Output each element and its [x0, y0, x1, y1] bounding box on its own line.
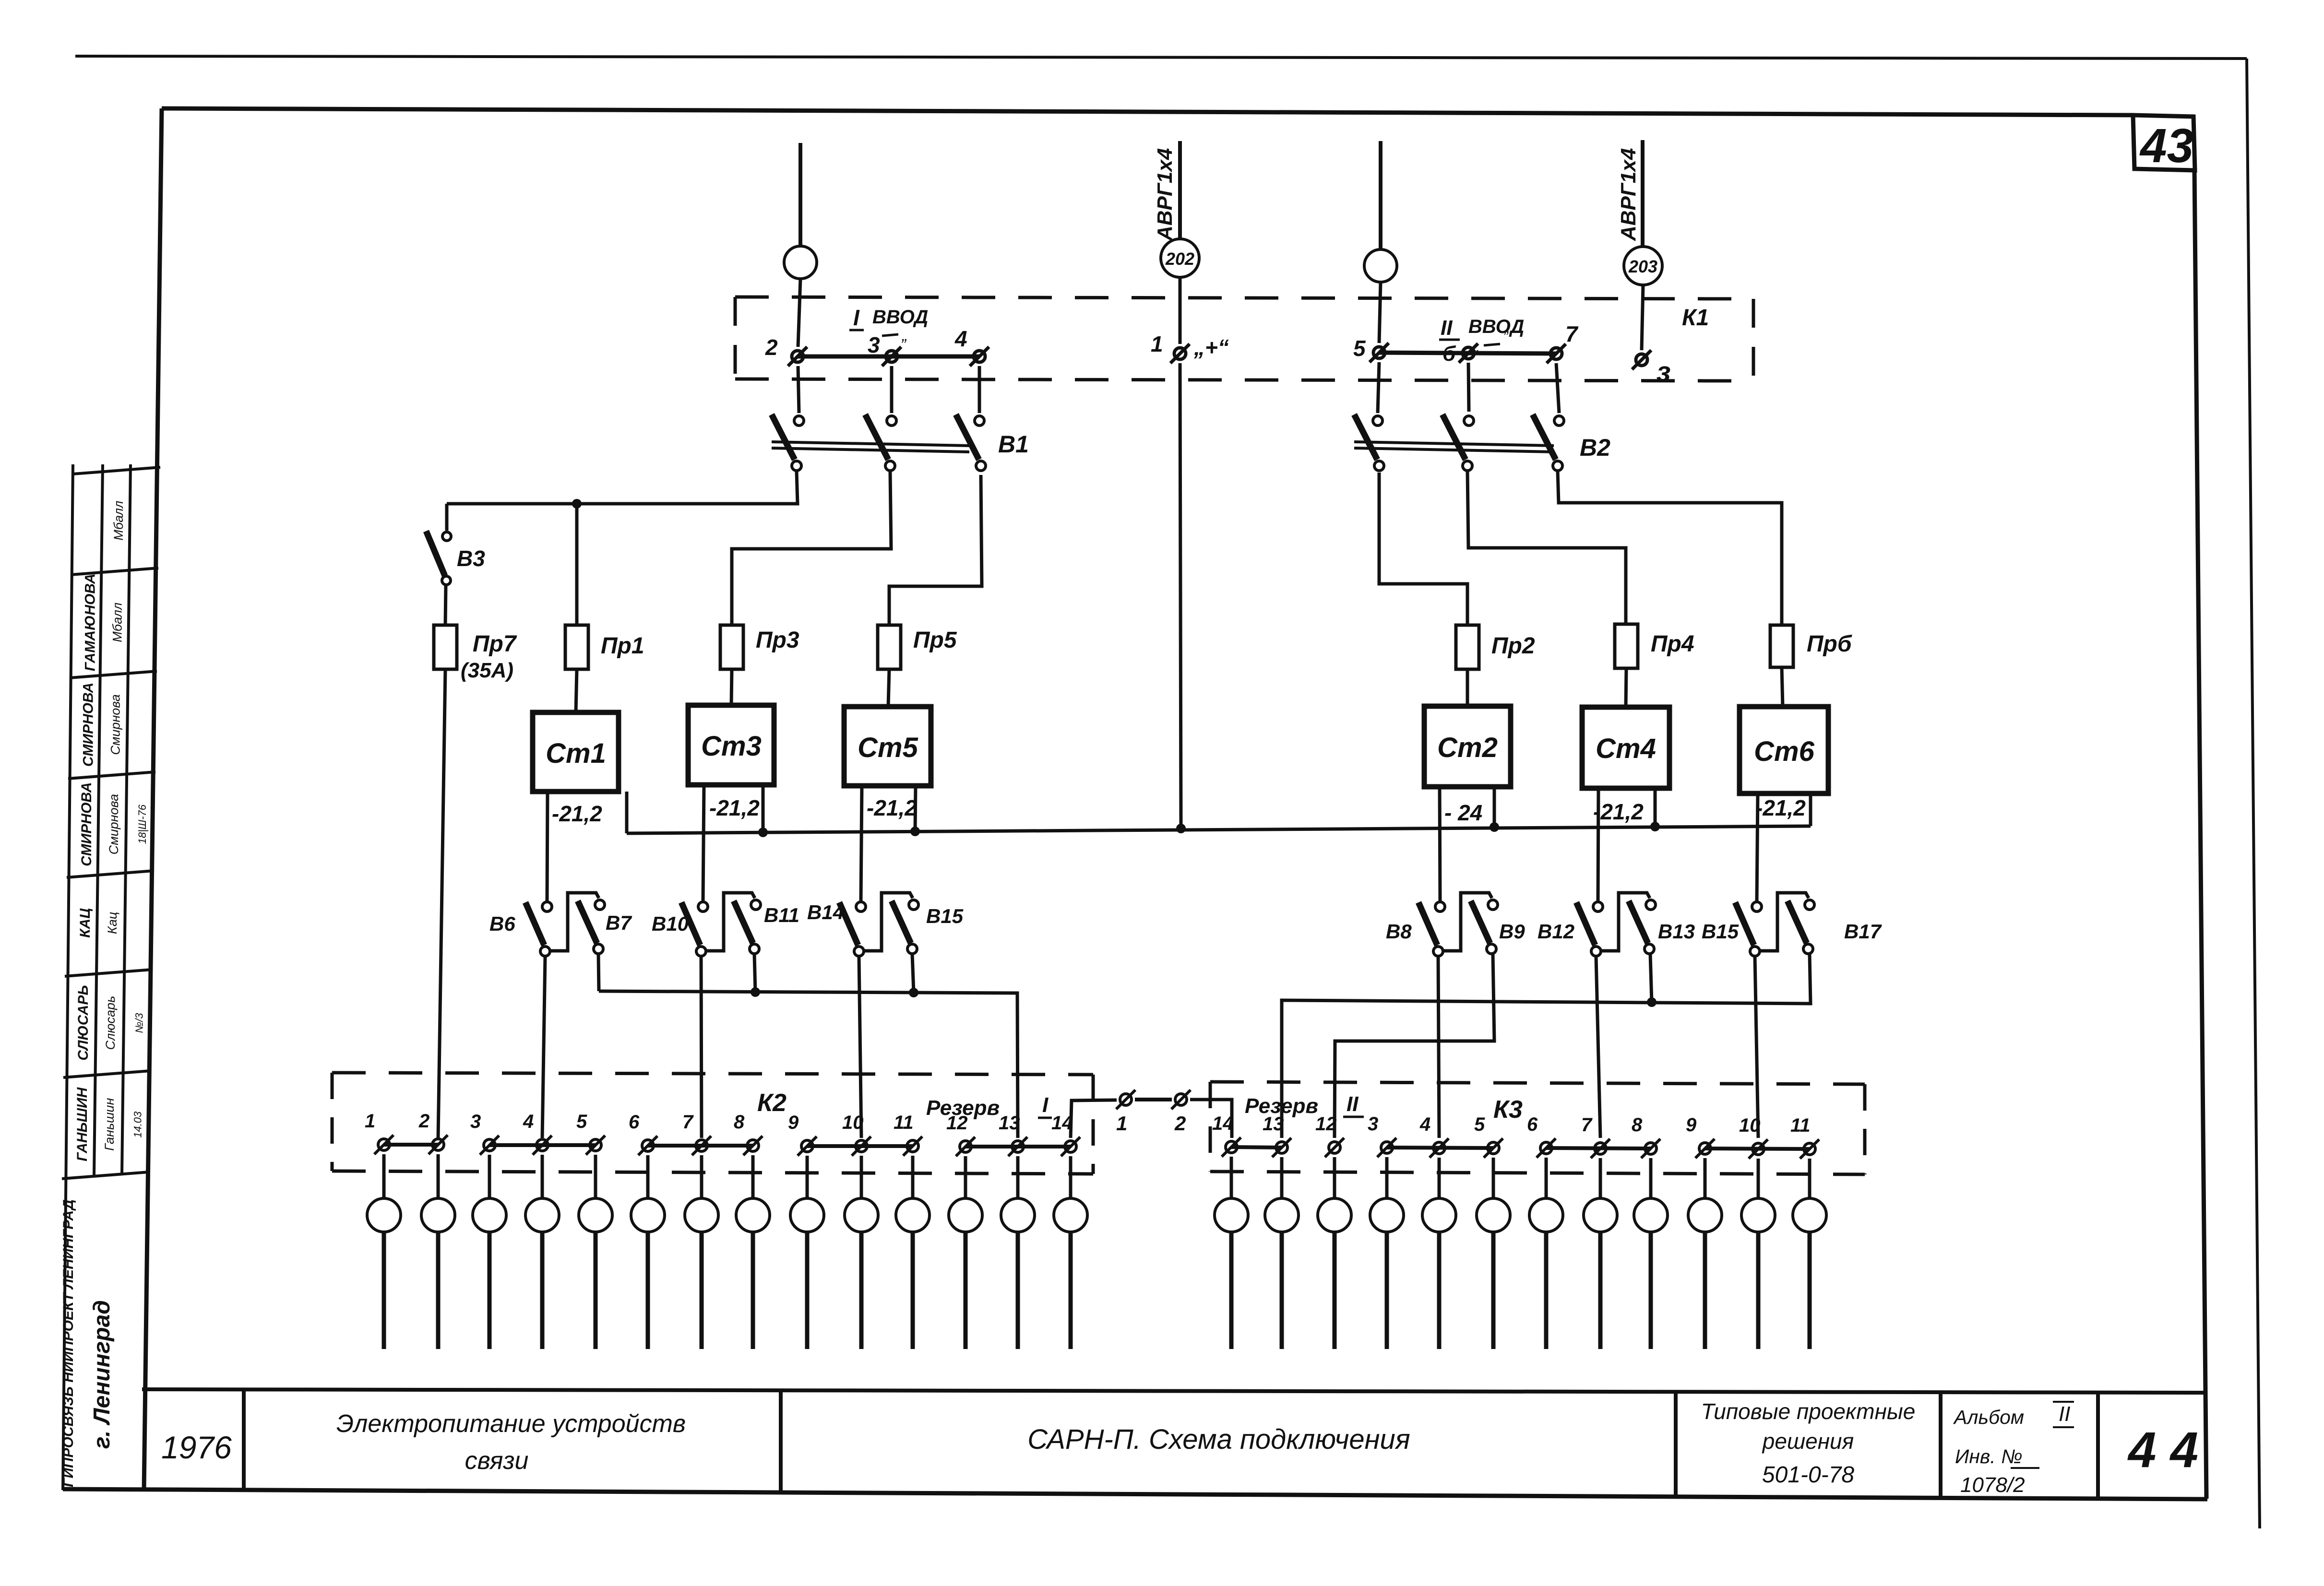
label -24 St2 [1444, 800, 1482, 825]
title block divider 44 [2096, 1393, 2100, 1498]
reserve bus I [599, 991, 1018, 1138]
label K3 [1493, 1096, 1523, 1124]
fuse Pr7 [434, 625, 457, 669]
fuse Pr1 [565, 625, 588, 669]
svg-text:2: 2 [1174, 1112, 1186, 1135]
label B15(16) [1702, 920, 1739, 943]
svg-text:4 4: 4 4 [2127, 1422, 2198, 1478]
svg-text:10: 10 [1739, 1115, 1761, 1136]
wire terminal K2:7 to load [700, 1155, 703, 1198]
wire feeder-2 to K1 terminal 5 [1379, 282, 1381, 343]
svg-text:-21,2: -21,2 [709, 795, 760, 820]
wire St6 left output to B16 [1757, 793, 1758, 901]
K1 dashed box top [735, 297, 1753, 299]
junction dot bus St5 [910, 827, 920, 836]
label K3 terminal 6 [1527, 1114, 1538, 1135]
wire tap down to Pr1 [575, 504, 579, 625]
label Pr5 [913, 627, 957, 653]
rectifier St6 [1740, 707, 1828, 793]
svg-text:5: 5 [1353, 336, 1366, 361]
wire terminal K3:14 to load [1230, 1157, 1233, 1198]
svg-text:ВВОД: ВВОД [1468, 316, 1524, 337]
label K3 terminal 14 [1212, 1113, 1234, 1134]
load cable K3:8 [1649, 1232, 1653, 1349]
wire terminal K3:9 to load [1704, 1158, 1707, 1198]
svg-text:8: 8 [1632, 1114, 1643, 1136]
rectifier St1 [533, 712, 619, 792]
label з [1657, 356, 1671, 388]
terminal K2:1 [374, 1135, 393, 1154]
K2 terminal links [384, 1145, 1071, 1147]
svg-text:3: 3 [1368, 1113, 1378, 1135]
bridge link 1-2 [1135, 1098, 1172, 1101]
label Pr2 [1491, 633, 1535, 659]
terminal K2:3 [480, 1136, 499, 1155]
K3 terminal links [1231, 1147, 1810, 1149]
svg-text:Ст4: Ст4 [1596, 733, 1656, 764]
load circle K3:11 [1793, 1198, 1826, 1232]
load circle K3:14 [1215, 1198, 1248, 1232]
wire St3 left output to B10 [703, 785, 704, 901]
wire Pr7 to K2:2 [438, 669, 445, 1138]
label Pr1 [601, 633, 644, 659]
label -21,2 St5 [867, 795, 917, 820]
title typical line1 [1701, 1399, 1916, 1424]
svg-text:В7: В7 [606, 911, 632, 934]
terminal K3:3 [1377, 1138, 1396, 1157]
load circle K2:4 [525, 1198, 559, 1232]
svg-text:К2: К2 [757, 1089, 787, 1117]
svg-text:Пр4: Пр4 [1651, 631, 1694, 657]
wire terminal K2:8 to load [751, 1155, 755, 1198]
terminal K3:5 [1484, 1138, 1503, 1158]
label K3 terminal 5 [1474, 1114, 1485, 1135]
load cable K2:2 [436, 1232, 441, 1349]
bridge terminal 1 [1116, 1090, 1135, 1109]
wire terminal K3:13 to load [1280, 1157, 1284, 1198]
svg-text:1: 1 [1116, 1112, 1127, 1135]
title page number 44 [2127, 1422, 2198, 1478]
terminal K2:10 [852, 1136, 871, 1156]
K1 bus terminals 2-3-4 [798, 355, 979, 359]
svg-text:7: 7 [682, 1112, 694, 1133]
load cable K3:5 [1491, 1232, 1496, 1349]
wire K1:4 down [978, 366, 981, 413]
wire terminal K2:3 to load [488, 1155, 491, 1198]
title block divider typical [1674, 1392, 1678, 1496]
load circle K3:10 [1741, 1198, 1775, 1232]
wire terminal K2:11 to load [911, 1156, 915, 1198]
svg-text:Ст1: Ст1 [546, 738, 606, 769]
terminal K2:4 [533, 1136, 552, 1155]
load circle K2:13 [1001, 1198, 1035, 1232]
svg-text:14: 14 [1051, 1113, 1073, 1134]
terminal K2:14 [1061, 1137, 1080, 1156]
svg-text:Смирнова: Смирнова [108, 694, 122, 755]
svg-text:з: з [1657, 356, 1671, 388]
wire B2 pole3 to Pr6 [1558, 471, 1782, 625]
svg-text:3: 3 [470, 1111, 481, 1132]
K1 dashed box bottom [735, 379, 1753, 381]
svg-text:В15: В15 [1702, 920, 1739, 943]
switch pair B16/B17 [1735, 893, 1814, 956]
svg-text:1078/2: 1078/2 [1960, 1473, 2025, 1497]
load circle K2:10 [845, 1198, 878, 1232]
cable 202 line [1178, 141, 1182, 239]
wire B15 to reserve bus [912, 954, 914, 993]
svg-text:ГАМАЮНОВА: ГАМАЮНОВА [82, 573, 98, 671]
bridge K2:14 up [1071, 1100, 1117, 1138]
terminal K1:1 [1170, 344, 1190, 363]
terminal K3:11 [1800, 1139, 1819, 1159]
label K2 terminal 2 [418, 1111, 429, 1132]
svg-text:2: 2 [418, 1111, 429, 1132]
bridge to K3:14 [1190, 1100, 1232, 1138]
label K2 terminal 9 [788, 1112, 799, 1133]
wire terminal K2:5 to load [594, 1155, 597, 1198]
wire B10 to K2:7 [701, 957, 702, 1138]
label K3 terminal 7 [1581, 1114, 1593, 1136]
svg-text:К3: К3 [1493, 1096, 1523, 1124]
K1 bus terminals 5-6-7 [1379, 353, 1556, 354]
label K3 terminal 12 [1315, 1113, 1337, 1135]
load cable K3:3 [1385, 1232, 1389, 1349]
switch B1 (3-pole) [772, 414, 1029, 471]
load circle K2:12 [949, 1198, 982, 1232]
load circle K2:2 [421, 1198, 455, 1232]
terminal K3:8 [1641, 1139, 1660, 1158]
svg-text:6: 6 [1527, 1114, 1538, 1135]
wire terminal K3:5 to load [1492, 1158, 1495, 1198]
svg-text:4: 4 [1419, 1114, 1430, 1135]
wire St5 left output to B14 [861, 786, 862, 901]
label B8 [1386, 920, 1412, 943]
label B6 [489, 912, 515, 935]
wire Pr5 to St5 [888, 669, 889, 707]
wire St4 right output to bus [1654, 788, 1657, 827]
svg-text:В12: В12 [1537, 920, 1574, 943]
drawing frame top edge [162, 108, 2134, 115]
wire terminal K3:12 to load [1333, 1157, 1336, 1198]
svg-text:В8: В8 [1386, 920, 1412, 943]
svg-text:-21,2: -21,2 [1593, 799, 1644, 824]
K2 dashed box top [332, 1073, 1093, 1075]
svg-text:9: 9 [788, 1112, 799, 1133]
bridge terminal 2 [1171, 1090, 1191, 1109]
fuse Pr4 [1615, 624, 1638, 668]
load cable K3:14 [1229, 1232, 1234, 1349]
K1 dashed box right [1752, 299, 1755, 381]
label АВРГ1х4 right [1617, 148, 1640, 241]
wire St3 right output to bus [762, 785, 765, 832]
drawing frame right edge [2194, 169, 2206, 1499]
svg-text:Типовые проектные: Типовые проектные [1701, 1399, 1916, 1424]
junction dot bus St3 [758, 828, 768, 837]
load cable K3:9 [1703, 1232, 1707, 1349]
svg-text:„: „ [901, 326, 907, 344]
load circle K3:12 [1318, 1198, 1351, 1232]
svg-text:В13: В13 [1658, 920, 1695, 943]
svg-text:В10: В10 [652, 912, 689, 935]
svg-text:-21,2: -21,2 [867, 795, 917, 820]
svg-text:б: б [1442, 342, 1456, 366]
wire terminal K3:7 to load [1599, 1158, 1602, 1198]
label bridge 2 [1174, 1112, 1186, 1135]
svg-text:В6: В6 [489, 912, 515, 935]
svg-text:Ганьшин: Ганьшин [102, 1098, 117, 1151]
K3 dashed box left [1209, 1082, 1212, 1172]
label II ВВОД [1439, 316, 1524, 366]
K2 dashed box left [331, 1073, 334, 1171]
label K2 terminal 10 [842, 1112, 864, 1133]
svg-text:СЛЮСАРЬ: СЛЮСАРЬ [75, 985, 91, 1060]
load circle K2:6 [631, 1198, 665, 1232]
load circle K2:11 [896, 1198, 930, 1232]
wire terminal K2:9 to load [806, 1156, 809, 1198]
svg-text:(35А): (35А) [461, 659, 513, 682]
junction dot reserve B11 [751, 987, 760, 997]
label B7 [606, 911, 632, 934]
terminal K2:12 [956, 1137, 975, 1156]
rectifier St5 [844, 707, 931, 786]
cable 202 circle [1161, 239, 1199, 277]
junction dot bus St4 [1650, 822, 1660, 831]
terminal K2:11 [903, 1136, 922, 1156]
wire B14 to K2:10 [859, 957, 861, 1138]
load circle K3:7 [1584, 1198, 1617, 1232]
load circle K3:4 [1422, 1198, 1456, 1232]
label K3 terminal 4 [1419, 1114, 1430, 1135]
svg-text:Ст2: Ст2 [1437, 732, 1498, 763]
wire B7 down to reserve bus [598, 954, 599, 991]
label K3 terminal 13 [1263, 1113, 1284, 1135]
label -21,2 St4 [1593, 799, 1644, 824]
svg-text:202: 202 [1165, 249, 1194, 269]
svg-text:Кац: Кац [105, 912, 119, 934]
svg-text:1: 1 [365, 1111, 375, 1132]
label Reserve II [1245, 1092, 1364, 1118]
cable 203 line [1641, 140, 1645, 247]
label K2 terminal 3 [470, 1111, 481, 1132]
junction dot bus 202 [1176, 824, 1186, 833]
load cable K2:13 [1016, 1232, 1020, 1349]
svg-text:К1: К1 [1682, 305, 1709, 331]
load circle K2:1 [367, 1198, 401, 1232]
label K2 terminal 5 [576, 1111, 587, 1132]
signature table grid [62, 464, 160, 1490]
svg-text:ВВОД: ВВОД [872, 307, 928, 328]
title project name line1 [336, 1410, 686, 1438]
svg-text:„: „ [1473, 338, 1479, 355]
load cable K2:1 [382, 1232, 386, 1349]
svg-text:11: 11 [1790, 1115, 1811, 1136]
svg-text:Мбалл: Мбалл [111, 501, 126, 541]
title block top line [142, 1389, 2205, 1393]
K3 dashed box bottom [1210, 1172, 1865, 1174]
label K3 terminal 3 [1368, 1113, 1378, 1135]
terminal K3:14 [1222, 1137, 1241, 1157]
svg-text:В2: В2 [1580, 434, 1610, 461]
junction dot reserve B15 [909, 988, 918, 997]
svg-text:6: 6 [629, 1112, 640, 1133]
label -21,2 St6 [1755, 795, 1806, 820]
load circle K2:3 [473, 1198, 506, 1232]
switch pair B6/B7 [525, 893, 605, 956]
wire terminal K2:4 to load [541, 1155, 544, 1198]
svg-text:-21,2: -21,2 [552, 801, 602, 826]
svg-text:АВРГ1х4: АВРГ1х4 [1153, 148, 1177, 241]
label K3 terminal 8 [1632, 1114, 1643, 1136]
fuse Pr6 [1770, 625, 1793, 667]
label K3 terminal 11 [1790, 1115, 1811, 1136]
wire B1 pole1 to B3 bus [447, 472, 798, 504]
switch pair B8/B9 [1418, 893, 1498, 956]
terminal K2:13 [1008, 1137, 1027, 1156]
wire Pr4 to St4 [1626, 668, 1626, 707]
load cable K3:10 [1756, 1232, 1761, 1349]
label B10 [652, 912, 689, 935]
svg-text:2: 2 [765, 335, 778, 360]
svg-text:14: 14 [1212, 1113, 1234, 1134]
rectifier St3 [688, 705, 774, 785]
title album line3 [1960, 1473, 2025, 1497]
terminal K1:2 [788, 347, 807, 366]
load cable K3:12 [1333, 1232, 1337, 1349]
wire B1 pole2 to Pr3 [732, 472, 891, 625]
fuse Pr5 [878, 625, 901, 669]
terminal K1:5 [1370, 343, 1389, 362]
label АВРГ1х4 left [1153, 148, 1177, 241]
label K2 terminal 1 [365, 1111, 375, 1132]
signature table names [74, 501, 148, 1161]
terminal K1:4 [970, 347, 989, 366]
wire terminal K3:6 to load [1545, 1158, 1548, 1198]
svg-text:связи: связи [465, 1447, 529, 1475]
label 2 [765, 335, 778, 360]
label B12 [1537, 920, 1574, 943]
svg-text:4: 4 [954, 326, 967, 351]
svg-text:решения: решения [1762, 1429, 1854, 1454]
common bus -21,2 [627, 826, 1811, 833]
terminal K1:6 [1459, 343, 1478, 363]
load circle K3:9 [1688, 1198, 1722, 1232]
feeder-2 cable circle [1364, 249, 1397, 282]
load cable K2:10 [859, 1232, 864, 1349]
svg-text:ГИПРОСВЯЗЬ НИИПРОЕКТ ЛЕНИНГРАД: ГИПРОСВЯЗЬ НИИПРОЕКТ ЛЕНИНГРАД [60, 1199, 76, 1487]
load cable K2:14 [1069, 1232, 1073, 1349]
terminal K2:2 [429, 1135, 448, 1154]
label -21,2 St1 [552, 801, 602, 826]
label B17 [1844, 920, 1882, 943]
wire feeder-1 to K1 terminal 2 [798, 279, 800, 347]
load circle K2:7 [685, 1198, 718, 1232]
wire K1:7 down [1556, 363, 1559, 413]
svg-text:Слюсарь: Слюсарь [103, 996, 118, 1050]
terminal K3:9 [1695, 1139, 1715, 1158]
label bridge 1 [1116, 1112, 1127, 1135]
load circle K2:14 [1054, 1198, 1087, 1232]
feeder-1 cable circle [784, 246, 817, 279]
svg-text:11: 11 [894, 1112, 914, 1133]
fuse Pr2 [1456, 625, 1479, 669]
wire terminal K2:1 to load [382, 1154, 386, 1198]
outer paper top line [75, 56, 2247, 59]
svg-text:В9: В9 [1499, 920, 1525, 943]
svg-text:ГАНЬШИН: ГАНЬШИН [74, 1087, 90, 1161]
load cable K2:7 [700, 1232, 704, 1349]
load cable K3:13 [1280, 1232, 1284, 1349]
load cable K3:6 [1544, 1232, 1549, 1349]
wire St4 left output to B12 [1598, 788, 1598, 901]
svg-text:г. Ленинград: г. Ленинград [89, 1300, 115, 1449]
terminal K3:6 [1537, 1138, 1556, 1158]
terminal K2:9 [798, 1136, 817, 1156]
terminal K2:8 [743, 1136, 763, 1155]
label 3 [868, 332, 880, 357]
svg-text:4: 4 [523, 1111, 534, 1132]
wire terminal K3:8 to load [1649, 1158, 1653, 1198]
load cable K2:5 [594, 1232, 598, 1349]
rectifier St2 [1424, 706, 1511, 787]
svg-text:Инв. №: Инв. № [1955, 1445, 2022, 1468]
svg-text:Ст6: Ст6 [1754, 736, 1814, 767]
label K3 terminal 10 [1739, 1115, 1761, 1136]
label K2 terminal 13 [999, 1113, 1020, 1134]
load circle K2:9 [790, 1198, 824, 1232]
title album line1 [1953, 1402, 2074, 1428]
terminal K3:12 [1325, 1138, 1344, 1157]
wire St1 right output to bus [625, 792, 629, 833]
svg-text:1: 1 [1151, 331, 1163, 356]
svg-text:203: 203 [1628, 257, 1657, 276]
terminal K1:7 [1547, 344, 1566, 363]
svg-text:3: 3 [868, 332, 880, 357]
title block divider name [779, 1391, 783, 1493]
wire terminal K3:3 to load [1385, 1157, 1389, 1198]
wire St6 right output to bus [1809, 793, 1812, 826]
svg-text:43: 43 [2139, 119, 2193, 173]
svg-text:18|Ш-76: 18|Ш-76 [136, 804, 148, 844]
label 7 [1565, 321, 1579, 346]
terminal K3:4 [1430, 1138, 1449, 1158]
svg-text:СМИРНОВА: СМИРНОВА [79, 782, 95, 866]
wire St1 left output to B6 [547, 792, 548, 901]
svg-text:В17: В17 [1844, 920, 1882, 943]
svg-text:I: I [853, 305, 860, 330]
wire terminal K3:10 to load [1757, 1159, 1760, 1198]
svg-text:7: 7 [1581, 1114, 1593, 1136]
terminal K2:6 [638, 1136, 657, 1155]
label K1 [1682, 305, 1709, 331]
svg-text:Пр7: Пр7 [473, 631, 517, 657]
svg-text:8: 8 [734, 1112, 745, 1133]
label Pr4 [1651, 631, 1694, 657]
load cable K2:9 [805, 1232, 810, 1349]
feeder line 1 (I input cable) [799, 143, 802, 246]
wire terminal K3:4 to load [1438, 1158, 1441, 1198]
K1 dashed box left [734, 297, 737, 379]
label K2 terminal 4 [523, 1111, 534, 1132]
terminal K3:13 [1272, 1138, 1291, 1157]
load cable K2:6 [646, 1232, 650, 1349]
svg-text:СМИРНОВА: СМИРНОВА [80, 683, 96, 767]
title typical line2 [1762, 1429, 1854, 1454]
load circle K2:5 [579, 1198, 612, 1232]
page number box 43 [2133, 115, 2195, 170]
load circle K3:13 [1265, 1198, 1299, 1232]
wire K1:3 down [890, 366, 894, 413]
svg-text:В3: В3 [457, 546, 485, 571]
